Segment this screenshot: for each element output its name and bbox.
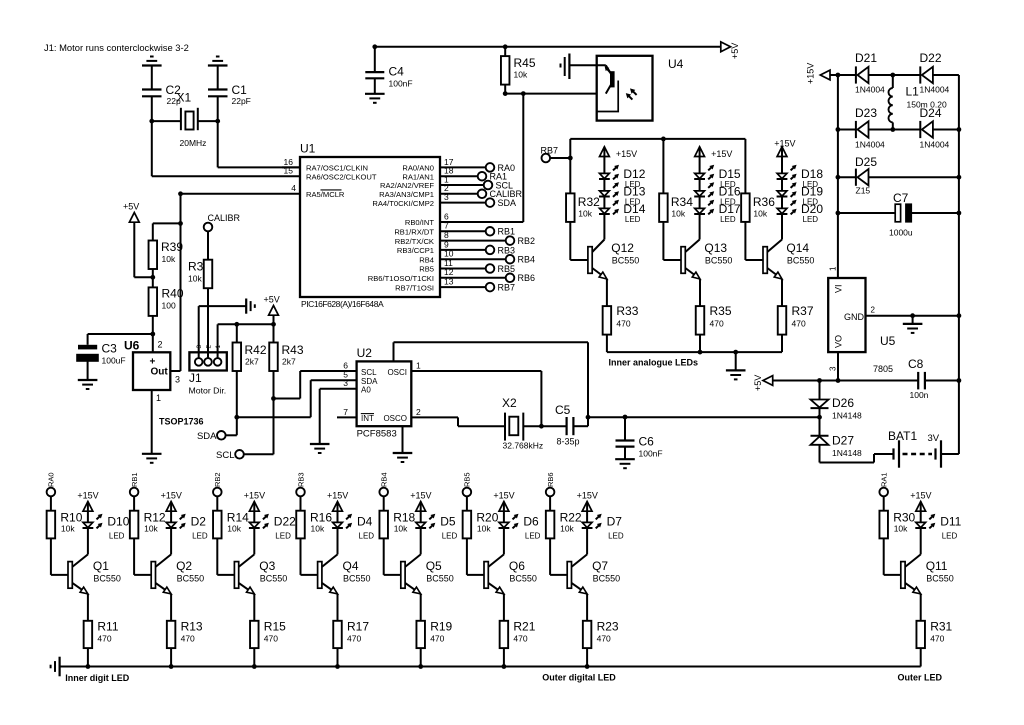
- svg-text:10k: 10k: [144, 524, 158, 534]
- wire +5V top rail: [375, 46, 721, 48]
- terminal circle RB6 pin: [506, 274, 515, 283]
- svg-text:3: 3: [175, 375, 180, 385]
- U2 left pin numbers: [343, 360, 348, 388]
- wire VDD line: [588, 416, 820, 418]
- battery labels: [888, 429, 940, 444]
- wire +15V to collector Q1: [87, 502, 89, 555]
- svg-text:D15: D15: [719, 167, 741, 181]
- capacitor C1 22pF: [208, 83, 251, 106]
- svg-text:RB3: RB3: [296, 472, 305, 487]
- wire R20 to base Q6: [467, 538, 484, 575]
- net label RB3 pin: [498, 245, 516, 255]
- wire rail to ground: [735, 352, 737, 370]
- svg-text:Z15: Z15: [856, 186, 871, 196]
- junction rail R17: [335, 664, 340, 669]
- resistor R15 470: [250, 620, 286, 649]
- U1 pin 18 lead (RA1): [440, 166, 478, 177]
- svg-text:RB6: RB6: [518, 273, 536, 283]
- net label RB7 pin: [498, 283, 516, 293]
- resistor R31 470: [916, 620, 952, 649]
- ground at U5: [903, 324, 923, 333]
- net label RB7 mid: [541, 146, 559, 156]
- resistor R20 10k: [463, 511, 499, 539]
- LED D13: [599, 182, 619, 197]
- U2 pin 7 INT stub: [337, 407, 357, 418]
- svg-text:R36: R36: [753, 195, 775, 209]
- resistor R42 2k7: [233, 343, 267, 372]
- svg-text:R35: R35: [710, 304, 732, 318]
- svg-text:J1: J1: [189, 371, 202, 385]
- svg-text:Q11: Q11: [926, 559, 948, 573]
- svg-text:470: 470: [264, 634, 278, 644]
- svg-text:CALIBR: CALIBR: [208, 213, 241, 223]
- svg-text:L1: L1: [906, 85, 920, 99]
- U5 pin1 number: [829, 266, 838, 271]
- svg-text:BC550: BC550: [177, 574, 205, 584]
- label Q12: [611, 241, 639, 266]
- terminal circle RB3 pin: [486, 246, 495, 255]
- net label RB5 pin: [498, 264, 516, 274]
- svg-text:BC550: BC550: [787, 256, 815, 266]
- junction VO: [836, 378, 841, 383]
- svg-text:RB3: RB3: [498, 245, 516, 255]
- U2 part number: [357, 429, 397, 440]
- capacitor C3 100uF: [77, 342, 126, 366]
- capacitor C5 8-35p: [555, 403, 580, 446]
- wire C6 top: [624, 417, 626, 441]
- svg-text:10k: 10k: [514, 70, 528, 80]
- U6 pin 2 number: [158, 340, 163, 350]
- wire R17 to rail: [337, 648, 339, 666]
- LED D12: [599, 165, 619, 180]
- junction X1 left: [149, 119, 154, 124]
- label Q1: [93, 559, 121, 584]
- svg-text:LED: LED: [275, 532, 291, 541]
- opto U4 box: [597, 56, 684, 121]
- U1 pin 3 lead (SDA): [440, 192, 486, 203]
- wire C6 bottom: [624, 447, 626, 459]
- wire R35 to rail: [699, 335, 701, 353]
- wire R37 to rail: [781, 335, 783, 353]
- LED D10: [83, 514, 103, 529]
- svg-text:470: 470: [430, 634, 444, 644]
- svg-text:D11: D11: [940, 515, 961, 529]
- svg-text:10k: 10k: [477, 524, 491, 534]
- wire C4 to ground: [374, 78, 376, 93]
- svg-text:Q12: Q12: [611, 241, 634, 255]
- terminal circle SDA: [486, 198, 495, 207]
- LED D17: [694, 200, 714, 215]
- svg-text:R33: R33: [616, 304, 638, 318]
- svg-text:100nF: 100nF: [389, 79, 413, 89]
- wire R10 to base Q1: [51, 538, 68, 575]
- IC U6 box: [124, 339, 170, 391]
- svg-text:RB2/TX/CK: RB2/TX/CK: [395, 237, 434, 246]
- resistor R14 10k: [213, 511, 249, 539]
- label D6: [523, 515, 540, 541]
- U1 pin text RB3/CCP1: [397, 246, 434, 255]
- +5V arrow output: [753, 375, 773, 391]
- resistor R19 470: [416, 620, 452, 649]
- wire emitter Q11: [920, 594, 922, 621]
- U1 pin 9 lead (RB3): [440, 239, 486, 250]
- wire emitter Q1: [87, 594, 89, 621]
- junction VDD/C5: [586, 415, 591, 420]
- svg-text:RA6/OSC2/CLKOUT: RA6/OSC2/CLKOUT: [306, 172, 377, 181]
- resistor R3 10k: [188, 260, 212, 289]
- +15V arrow Q4 column: [333, 502, 343, 512]
- capacitor C4 100nF: [365, 65, 412, 89]
- svg-text:3: 3: [343, 378, 348, 388]
- +15V arrow Q7 column: [582, 502, 592, 512]
- wire to C4: [374, 47, 376, 72]
- wire RB4 to R18: [383, 496, 385, 511]
- svg-text:10k: 10k: [162, 254, 176, 264]
- wire R43 top lead: [273, 324, 275, 342]
- junction rail R23: [585, 664, 590, 669]
- svg-text:GND: GND: [844, 312, 865, 322]
- wire U6 out: [170, 370, 180, 372]
- svg-text:TSOP1736: TSOP1736: [159, 417, 204, 427]
- wire R45 bottom: [504, 85, 506, 94]
- junction R39/R40: [150, 275, 155, 280]
- LED D14: [599, 200, 619, 215]
- svg-text:RB2: RB2: [518, 236, 536, 246]
- label D20: [801, 202, 823, 224]
- wire emitter Q3: [253, 594, 255, 621]
- diode D22 1N4004: [920, 51, 950, 95]
- ground below C6: [615, 459, 635, 468]
- svg-text:D4: D4: [357, 515, 373, 529]
- junction R40/C3: [150, 332, 155, 337]
- +5V arrow mid: [264, 295, 280, 316]
- svg-text:8-35p: 8-35p: [557, 436, 580, 446]
- wire R18 to base Q5: [384, 538, 401, 575]
- U5 pin3 number: [829, 366, 838, 371]
- label D14: [623, 202, 645, 224]
- wire D22 to right rail: [933, 75, 959, 381]
- svg-text:R43: R43: [282, 343, 304, 357]
- svg-text:RA2/AN2/VREF: RA2/AN2/VREF: [380, 181, 434, 190]
- svg-text:100n: 100n: [910, 390, 929, 400]
- svg-text:10k: 10k: [394, 524, 408, 534]
- resistor R10 10k: [47, 511, 83, 539]
- svg-text:RB0/INT: RB0/INT: [405, 218, 434, 227]
- svg-text:RA7/OSC1/CLKIN: RA7/OSC1/CLKIN: [306, 164, 368, 173]
- label D18: [801, 167, 823, 189]
- wire OSCO pin2: [411, 407, 505, 426]
- junction VDD battery: [817, 415, 822, 420]
- resistor R40 100: [149, 287, 184, 316]
- wire C1 to U1 pin16: [218, 96, 300, 167]
- net label RB6 bottom: [546, 472, 555, 487]
- U1 pin text RA0/AN0: [402, 164, 434, 173]
- wire D27 to battery: [820, 445, 894, 463]
- svg-text:470: 470: [616, 319, 630, 329]
- wire CALIBR to R3: [207, 231, 209, 260]
- svg-text:+5V: +5V: [753, 375, 763, 391]
- wire LED string Q14: [781, 147, 783, 240]
- label D5: [440, 515, 457, 541]
- resistor R32 10k: [566, 193, 600, 222]
- svg-text:R17: R17: [347, 620, 369, 634]
- wire emitter Q6: [503, 594, 505, 621]
- wire R39 top lead: [152, 223, 154, 240]
- +5V arrow left: [123, 202, 139, 223]
- U1 pin 6 lead RB0/INT: [440, 211, 523, 222]
- svg-text:R11: R11: [97, 620, 118, 634]
- terminal circle RB1 bottom: [130, 488, 139, 497]
- terminal circle SCL: [235, 450, 244, 459]
- wire SDA circle: [225, 434, 236, 436]
- svg-text:BC550: BC550: [612, 256, 640, 266]
- svg-text:Q13: Q13: [704, 241, 727, 255]
- +5V arrow top: [721, 42, 740, 59]
- wire RB1 to R12: [133, 496, 135, 511]
- svg-text:R34: R34: [671, 195, 693, 209]
- svg-text:+15V: +15V: [244, 491, 265, 501]
- wire X2 to C5: [523, 425, 566, 427]
- svg-text:1N4004: 1N4004: [855, 85, 885, 95]
- svg-text:D24: D24: [920, 106, 942, 120]
- LED D18: [777, 165, 797, 180]
- svg-text:3V: 3V: [928, 433, 940, 444]
- U1 pin 15 number: [284, 166, 294, 176]
- wire bottom emitter rail: [60, 666, 921, 668]
- crystal X1 20MHz: [152, 91, 218, 149]
- svg-text:13: 13: [444, 277, 454, 287]
- wire R39-R40: [152, 269, 154, 287]
- label D4: [357, 515, 374, 541]
- svg-text:U1: U1: [300, 142, 316, 156]
- wire R36 to base: [745, 222, 763, 260]
- svg-text:BC550: BC550: [260, 574, 288, 584]
- svg-text:D13: D13: [623, 185, 645, 199]
- label +15V mid col2: [711, 149, 732, 159]
- svg-text:BC550: BC550: [426, 574, 454, 584]
- wire RB7 to rail: [550, 157, 570, 159]
- terminal circle RB7 mid: [542, 154, 551, 163]
- junction rail R11: [86, 664, 91, 669]
- svg-text:D6: D6: [523, 515, 539, 529]
- label D19: [801, 185, 823, 207]
- U1 pin text RA6: [306, 172, 377, 181]
- net label SCL: [216, 450, 234, 461]
- wire U1 pin4 MCLR: [181, 193, 301, 195]
- U1 pin 17 lead (RA0): [440, 157, 486, 168]
- svg-text:LED: LED: [192, 532, 208, 541]
- svg-text:470: 470: [97, 634, 111, 644]
- svg-text:R39: R39: [161, 240, 183, 254]
- wire +5V to R39/R40 junction: [134, 222, 153, 277]
- junction left rail top: [836, 73, 841, 78]
- net label RB4 bottom: [380, 472, 389, 487]
- wire +15V to collector Q11: [920, 502, 922, 555]
- terminal circle RA0: [486, 163, 495, 172]
- svg-text:7805: 7805: [873, 364, 893, 374]
- svg-text:D14: D14: [623, 202, 645, 216]
- terminal circle RB5 bottom: [463, 488, 472, 497]
- svg-text:D26: D26: [832, 396, 854, 410]
- label D11: [940, 515, 961, 541]
- J1 pins: [195, 358, 222, 366]
- resistor R33 470: [603, 304, 639, 335]
- wire J1 pin1 to +5V: [218, 324, 274, 358]
- wire base drive rail: [570, 138, 745, 140]
- svg-text:15: 15: [284, 166, 294, 176]
- svg-text:470: 470: [181, 634, 195, 644]
- terminal circle RB6 bottom: [546, 488, 555, 497]
- junction right rail C7: [957, 211, 962, 216]
- +15V arrow Q14 column: [777, 147, 787, 157]
- wire to R39 top: [153, 222, 181, 224]
- svg-text:D18: D18: [801, 167, 823, 181]
- junction rail R21: [502, 664, 507, 669]
- resistor R37 470: [778, 304, 814, 335]
- wire R14 to base Q3: [217, 538, 234, 575]
- wire R34 to base: [663, 222, 681, 260]
- U1 pin 12 lead (RB6): [440, 267, 506, 278]
- wire R22 to base Q7: [550, 538, 567, 575]
- +15V arrow Q2 column: [166, 502, 176, 512]
- svg-text:C7: C7: [893, 191, 909, 205]
- terminal circle SCL: [484, 181, 493, 190]
- junction rail ground: [733, 350, 738, 355]
- svg-text:D22: D22: [920, 51, 942, 65]
- svg-text:SDA: SDA: [197, 431, 217, 442]
- wire R16 to base Q4: [301, 538, 318, 575]
- svg-text:R32: R32: [578, 195, 600, 209]
- U1 pin 1 lead (SCL): [440, 174, 484, 185]
- ground mid rail: [726, 370, 746, 379]
- transistor Q14 BC550: [763, 240, 782, 280]
- diode D23 1N4004: [855, 106, 885, 150]
- svg-text:R42: R42: [245, 343, 267, 357]
- svg-text:RA3/AN3/CMP1: RA3/AN3/CMP1: [379, 190, 434, 199]
- LED D4: [332, 514, 352, 529]
- U2 pin text INT: [361, 414, 374, 424]
- svg-text:Outer digital LED: Outer digital LED: [542, 673, 616, 683]
- label +15V Q3 column: [244, 491, 265, 501]
- junction X2/C5: [539, 424, 544, 429]
- ground bottom rail: [51, 657, 60, 677]
- svg-text:1000u: 1000u: [889, 228, 913, 238]
- wire MCLR riser to U6 out: [180, 194, 182, 371]
- junction RB0 riser: [521, 91, 526, 96]
- transistor Q12 BC550: [588, 240, 607, 280]
- svg-text:RB2: RB2: [213, 472, 222, 487]
- LED D5: [415, 514, 435, 529]
- terminal circle RA1: [478, 172, 487, 181]
- terminal circle RB4 pin: [506, 255, 515, 264]
- connector J1 box: [189, 352, 226, 370]
- net label RA0: [498, 163, 516, 173]
- zener D25 Z15: [855, 155, 877, 196]
- wire RB6 to R22: [549, 496, 551, 511]
- +15V arrow Q13 column: [695, 147, 705, 157]
- svg-text:+15V: +15V: [493, 491, 514, 501]
- wire LED string Q13: [699, 147, 701, 240]
- U1 pin text RA5/MCLR: [306, 190, 345, 199]
- capacitor C6 100nF: [616, 435, 663, 459]
- svg-text:LED: LED: [720, 215, 736, 224]
- wire R32 to base: [570, 222, 588, 260]
- U1 pin 2 lead (CALIBR): [440, 183, 478, 194]
- svg-text:U5: U5: [880, 334, 896, 348]
- terminal circle RB3 bottom: [296, 488, 305, 497]
- svg-text:+5V: +5V: [264, 295, 280, 305]
- wire to R45: [504, 47, 506, 56]
- wire emitter Q14: [781, 279, 783, 306]
- note: J1 motor direction: [44, 42, 189, 53]
- svg-text:470: 470: [347, 634, 361, 644]
- svg-text:Q7: Q7: [592, 559, 608, 573]
- svg-text:LED: LED: [525, 532, 541, 541]
- wire U5 GND: [866, 315, 959, 317]
- svg-text:10k: 10k: [753, 209, 767, 219]
- wire emitter Q4: [337, 594, 339, 621]
- svg-text:1N4004: 1N4004: [855, 140, 885, 150]
- label Q11: [926, 559, 954, 584]
- junction D26 top: [817, 378, 822, 383]
- terminal circle RB2 pin: [506, 236, 515, 245]
- svg-text:RB3/CCP1: RB3/CCP1: [397, 246, 434, 255]
- svg-text:Q4: Q4: [343, 559, 359, 573]
- svg-text:+15V: +15V: [577, 491, 598, 501]
- svg-text:U6: U6: [124, 339, 140, 353]
- svg-text:1: 1: [156, 393, 161, 403]
- LED D6: [499, 514, 519, 529]
- wire U5 VO: [837, 352, 839, 380]
- svg-text:R20: R20: [476, 511, 498, 525]
- svg-text:INT: INT: [361, 414, 374, 423]
- LED D22: [249, 514, 269, 529]
- terminal circle RB1 pin: [486, 227, 495, 236]
- LED D19: [777, 182, 797, 197]
- net label RA1: [490, 172, 508, 182]
- svg-text:D17: D17: [719, 202, 741, 216]
- wire left supply rail: [837, 75, 839, 278]
- LED D11: [915, 514, 935, 529]
- svg-text:C4: C4: [389, 65, 405, 79]
- wire D23 to D24: [869, 129, 921, 131]
- wire R31 to rail: [920, 648, 922, 666]
- svg-text:100uF: 100uF: [102, 356, 126, 366]
- U5 pin names: [834, 284, 865, 348]
- wire +5V arrow stem: [273, 315, 275, 324]
- label +15V mid col3: [774, 139, 795, 149]
- junction rail R35: [698, 350, 703, 355]
- svg-text:+15V: +15V: [77, 491, 98, 501]
- svg-text:10k: 10k: [188, 274, 202, 284]
- junction L1 top: [890, 73, 895, 78]
- wire D25 to rail: [869, 176, 959, 178]
- junction right rail gnd: [957, 313, 962, 318]
- junction rail D25: [836, 175, 841, 180]
- resistor R17 470: [333, 620, 369, 649]
- junction RB7/R32: [568, 156, 573, 161]
- wire gnd stub: [912, 316, 914, 324]
- U1 pin 16 lead: [282, 157, 300, 168]
- resistor R22 10k: [546, 511, 582, 539]
- wire C8 to rail: [925, 380, 959, 382]
- wire RA0 to R10: [50, 496, 52, 511]
- svg-text:RA0/AN0: RA0/AN0: [402, 164, 434, 173]
- transistor inside U4: [597, 65, 619, 111]
- svg-text:VO: VO: [834, 335, 844, 348]
- svg-text:R18: R18: [393, 511, 415, 525]
- terminal circle RB4 bottom: [379, 488, 388, 497]
